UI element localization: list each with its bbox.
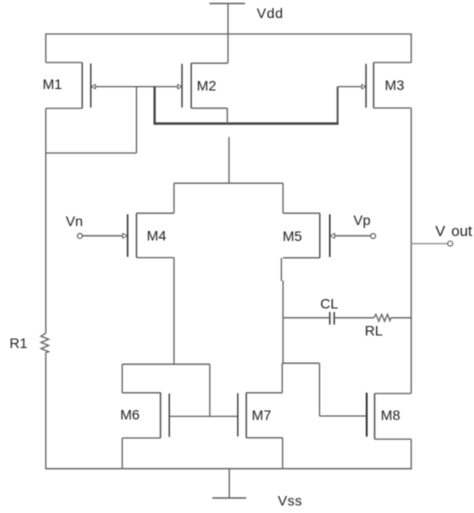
svg-text:M7: M7 <box>252 407 272 423</box>
transistor M7 drain stub <box>246 392 282 394</box>
transistor M3 drain stub <box>374 107 412 109</box>
svg-text:M6: M6 <box>120 407 140 423</box>
wire Vp lead <box>330 235 371 237</box>
bottom rail <box>46 468 412 470</box>
wire gate bus riser left (thick) <box>154 87 156 124</box>
arrow at M1 gate <box>91 85 95 89</box>
transistor M5 source stub <box>283 212 320 214</box>
wire V out stub <box>411 243 448 245</box>
svg-text:CL: CL <box>320 296 338 312</box>
node Vn terminal <box>78 234 83 239</box>
transistor M2 source stub <box>191 62 228 64</box>
transistor M1 channel bar <box>81 63 83 109</box>
resistor RL <box>374 314 391 321</box>
svg-text:M2: M2 <box>197 78 217 94</box>
right rail upper <box>410 33 412 62</box>
transistor M4 channel bar <box>136 213 138 257</box>
node V out terminal <box>448 241 453 246</box>
svg-text:R1: R1 <box>10 335 28 351</box>
wire M6 diode drop <box>209 364 211 416</box>
wire tail right drop <box>282 183 284 213</box>
transistor M6 gate bar <box>168 394 170 437</box>
arrow at M3 gate <box>362 85 366 89</box>
wire M6-M7 gate lead <box>169 415 238 417</box>
svg-text:M1: M1 <box>43 76 63 92</box>
wire M1 gate-drain tap vertical <box>136 87 138 153</box>
arrow at M5 gate <box>330 234 335 239</box>
transistor M4 source stub <box>137 212 175 214</box>
left rail upper <box>45 33 47 62</box>
transistor M1 source stub <box>46 62 82 64</box>
wire gate bus riser right (thick) <box>337 87 339 124</box>
arrow at M2 gate <box>178 85 182 89</box>
transistor M4 drain stub <box>137 257 175 259</box>
left rail middle <box>45 108 47 333</box>
wire M2 drain to tail (below crossing gap) <box>228 137 230 183</box>
transistor M8 gate bar <box>366 393 368 437</box>
svg-text:M8: M8 <box>381 407 401 423</box>
transistor M3 gate bar <box>365 64 367 108</box>
transistor M5 gate bar <box>329 214 331 257</box>
svg-text:V: V <box>435 223 445 240</box>
svg-text:M3: M3 <box>385 77 405 93</box>
wire Vn lead <box>82 235 123 237</box>
transistor M7 source stub <box>246 437 282 439</box>
Vdd bar <box>210 3 246 5</box>
transistor M2 drain stub <box>191 107 227 109</box>
wire compensation branch left <box>283 317 330 319</box>
transistor M8 drain stub <box>375 393 412 395</box>
transistor M2 channel bar <box>190 63 192 108</box>
svg-text:Vdd: Vdd <box>257 5 284 21</box>
transistor M8 channel bar <box>374 394 376 440</box>
right rail middle <box>410 108 412 394</box>
wire M4 drain drop <box>173 258 175 365</box>
wire second stage right node horizontal <box>282 362 319 364</box>
transistor M7 channel bar <box>245 393 247 438</box>
transistor M5 channel bar <box>319 213 321 258</box>
wire M6 drain riser <box>121 364 123 393</box>
transistor M1 gate bar <box>90 64 92 108</box>
wire gate bus horizontal (thick) <box>154 122 339 124</box>
right rail lower <box>410 439 412 469</box>
arrow at M4 gate <box>123 234 128 239</box>
wire M7 source drop <box>282 438 284 469</box>
transistor M3 channel bar <box>373 63 375 109</box>
wire M8 gate drop <box>319 363 321 416</box>
transistor M6 drain stub <box>122 392 160 394</box>
Vdd vertical wire <box>227 4 229 63</box>
left rail lower <box>45 353 47 470</box>
wire M1 gate-drain tap horizontal <box>46 152 137 154</box>
transistor M5 drain stub <box>283 257 320 259</box>
Vss bar <box>212 497 246 499</box>
wire M3 gate lead <box>338 86 366 88</box>
wire M2 drain to bus crossing <box>226 108 228 123</box>
wire resistor to output rail <box>391 317 411 319</box>
svg-text:Vp: Vp <box>353 212 370 228</box>
transistor M2 gate bar <box>181 64 183 108</box>
wire diff pair tail horizontal <box>174 182 283 184</box>
wire capacitor to resistor <box>334 317 374 319</box>
wire M5 drain drop <box>280 258 282 281</box>
svg-text:M4: M4 <box>147 228 167 244</box>
wire M7 drain riser <box>281 363 283 393</box>
top rail <box>46 33 411 35</box>
svg-text:Vss: Vss <box>278 493 303 509</box>
wire M8 gate lead <box>320 415 367 417</box>
node Vp terminal <box>371 234 376 239</box>
Vss stem <box>228 469 230 498</box>
transistor M3 source stub <box>374 62 412 64</box>
svg-text:Vn: Vn <box>66 213 83 229</box>
transistor M7 gate bar <box>237 393 239 436</box>
wire tail left drop <box>173 183 175 213</box>
wire second stage left node horizontal <box>122 363 210 365</box>
transistor M4 gate bar <box>127 214 129 256</box>
svg-text:out: out <box>451 223 473 240</box>
svg-text:M5: M5 <box>283 228 303 244</box>
capacitor CL plate right <box>333 312 335 325</box>
wire M1 gate lead to M2 gate <box>91 86 182 88</box>
transistor M6 channel bar <box>160 393 162 439</box>
svg-text:RL: RL <box>365 323 383 339</box>
transistor M8 source stub <box>375 438 412 440</box>
resistor R1 <box>41 333 49 352</box>
wire M6 source drop <box>121 438 123 469</box>
transistor M6 source stub <box>122 437 160 439</box>
capacitor CL plate left <box>329 312 331 325</box>
transistor M1 drain stub <box>46 107 82 109</box>
